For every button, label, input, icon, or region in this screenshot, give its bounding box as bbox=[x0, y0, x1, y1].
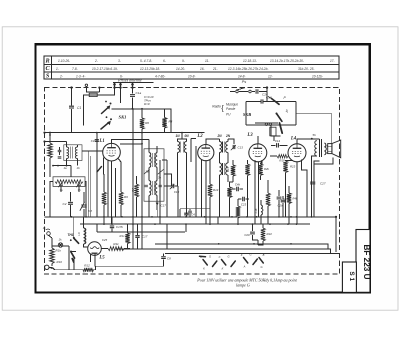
switch Ps lever bbox=[236, 88, 245, 91]
wire osc box to bus bbox=[50, 182, 86, 217]
wire ladder x164.5 bbox=[164, 109, 166, 133]
antenna terminal A1 bbox=[113, 83, 116, 86]
svg-text:BF 223 U: BF 223 U bbox=[362, 244, 371, 279]
svg-text:C10: C10 bbox=[174, 190, 180, 194]
coil 0N bbox=[184, 142, 186, 153]
svg-text:6-: 6- bbox=[163, 59, 166, 63]
svg-text:R4: R4 bbox=[169, 120, 173, 124]
pilot lamp 1k bbox=[58, 243, 62, 247]
svg-text:12-: 12- bbox=[268, 74, 273, 78]
resistor R4 bbox=[162, 118, 166, 129]
svg-text:Ps: Ps bbox=[242, 80, 247, 84]
antenna bracket line bbox=[113, 81, 154, 83]
svg-text:R10: R10 bbox=[57, 260, 63, 264]
svg-text:7-8-: 7-8- bbox=[72, 67, 78, 71]
capacitor C16 bbox=[261, 99, 263, 103]
wire riser x196 bbox=[195, 146, 197, 217]
svg-text:R9: R9 bbox=[124, 195, 128, 199]
resistor R10 bbox=[49, 235, 53, 248]
tube L2 bbox=[198, 145, 214, 161]
coil 2N secondary a bbox=[219, 163, 221, 175]
wire Ps feed bbox=[230, 91, 267, 93]
switch Ps contact b bbox=[249, 90, 252, 93]
svg-text:L4: L4 bbox=[290, 137, 297, 142]
coil 2N secondary b bbox=[226, 163, 228, 175]
svg-text:5- 4-7-8-: 5- 4-7-8- bbox=[140, 59, 152, 63]
svg-text:2-: 2- bbox=[94, 59, 98, 63]
wire L1 screen lead bbox=[120, 143, 142, 145]
wire 2N leads bbox=[219, 139, 234, 217]
capacitor C23 bbox=[243, 197, 245, 201]
wire T1 trimmer feed bbox=[164, 174, 172, 186]
IF transformer T1 box bbox=[144, 149, 164, 201]
output transformer T-out bbox=[319, 139, 321, 157]
svg-text:1N: 1N bbox=[175, 134, 180, 138]
wire L5 leads bbox=[84, 244, 96, 266]
wire selector bottom bbox=[246, 124, 296, 126]
svg-text:R7: R7 bbox=[131, 188, 135, 192]
coil 2N secondary core bbox=[223, 163, 225, 175]
svg-text:G: G bbox=[260, 265, 262, 269]
small jack box bbox=[270, 127, 276, 136]
wire L4 plate bbox=[297, 139, 319, 144]
earth terminal bbox=[85, 84, 87, 86]
coil 2N core bbox=[223, 142, 225, 153]
wire bus heater upper bbox=[155, 244, 328, 249]
IF T1 primary coils bbox=[149, 153, 151, 168]
svg-text:A: A bbox=[232, 261, 235, 265]
capacitor C12 bbox=[159, 185, 162, 186]
svg-text:R11: R11 bbox=[113, 242, 119, 246]
wire input bus bbox=[112, 109, 172, 133]
coil core lines bbox=[181, 142, 183, 153]
wire riser x96.8 bbox=[96, 133, 98, 217]
switch TH1 lever bbox=[74, 238, 79, 243]
switch SKB contacts bbox=[265, 123, 267, 125]
svg-text:21-: 21- bbox=[212, 67, 218, 71]
svg-text:9-: 9- bbox=[182, 59, 185, 63]
wire bottom-left link bbox=[49, 267, 83, 270]
title block BF 223 U box bbox=[356, 230, 370, 293]
svg-text:11-: 11- bbox=[205, 59, 209, 63]
drawing border frame bbox=[36, 44, 370, 292]
wire PU to speaker bbox=[296, 113, 331, 143]
svg-text:R22: R22 bbox=[267, 232, 273, 236]
wire L4 pins bbox=[297, 160, 307, 225]
svg-text:C23: C23 bbox=[241, 203, 247, 207]
svg-text:3-: 3- bbox=[118, 59, 121, 63]
wire T-ant to ground bus bbox=[53, 166, 71, 177]
capacitor C20 bbox=[250, 232, 255, 234]
wire T1 connections bbox=[149, 140, 157, 217]
svg-text:2N: 2N bbox=[225, 134, 231, 138]
potentiometer P lever 1 bbox=[272, 99, 280, 105]
svg-text:10-8-: 10-8- bbox=[188, 74, 195, 78]
resistor R1 bbox=[49, 133, 51, 143]
svg-text:C1: C1 bbox=[77, 106, 81, 110]
svg-text:K: K bbox=[222, 267, 224, 271]
wire jack lead bbox=[255, 123, 278, 141]
svg-text:31b-20- 25-: 31b-20- 25- bbox=[298, 67, 314, 71]
wire T-out down pair bbox=[312, 156, 320, 217]
svg-text:2N: 2N bbox=[216, 134, 222, 138]
svg-text:A: A bbox=[243, 265, 246, 269]
wire T-ant risers bbox=[88, 151, 90, 217]
wire osc coil taps bbox=[61, 186, 79, 192]
svg-text:1-3- 4-: 1-3- 4- bbox=[76, 74, 85, 78]
svg-text:0N: 0N bbox=[184, 134, 189, 138]
wire bus heater bbox=[116, 249, 331, 254]
link box bbox=[89, 93, 97, 96]
svg-text:C: C bbox=[255, 259, 257, 263]
svg-text:C17: C17 bbox=[161, 204, 167, 208]
switch SK1 contacts bbox=[110, 103, 112, 105]
svg-text:C2b: C2b bbox=[278, 204, 283, 208]
IF T1 trimmer arrows bbox=[144, 170, 149, 175]
svg-text:L5: L5 bbox=[98, 256, 105, 261]
resistor R22 bbox=[261, 228, 265, 241]
capacitor C21 bbox=[281, 200, 286, 202]
svg-text:12-3-14b-25b-26-27b-24-2b-: 12-3-14b-25b-26-27b-24-2b- bbox=[228, 67, 268, 71]
svg-text:B: B bbox=[263, 253, 265, 257]
svg-text:L6: L6 bbox=[77, 232, 81, 236]
resistor R1b bbox=[236, 206, 240, 218]
svg-text:C1a: C1a bbox=[136, 91, 142, 95]
wire antenna 2 down bbox=[120, 82, 122, 103]
capacitor C4c bbox=[188, 211, 192, 213]
svg-text:S: S bbox=[46, 73, 50, 80]
wire riser x167 bbox=[162, 160, 167, 217]
capacitor C8b riser bbox=[163, 254, 165, 267]
svg-text:14-8-: 14-8- bbox=[238, 74, 245, 78]
switch TH2 contacts bbox=[70, 251, 72, 253]
tube L5 bbox=[88, 242, 102, 256]
wire local bus 208.8 bbox=[180, 209, 210, 217]
svg-text:C: C bbox=[200, 255, 202, 259]
title block S1 box bbox=[342, 262, 356, 292]
antenna terminal A3 bbox=[131, 83, 134, 86]
svg-text:Radio: Radio bbox=[212, 105, 221, 109]
svg-text:4-7-8b-: 4-7-8b- bbox=[155, 74, 165, 78]
capacitor C2 bbox=[70, 192, 72, 217]
svg-text:R2b: R2b bbox=[264, 167, 269, 171]
capacitor C27 bbox=[310, 182, 315, 184]
wire L2 pins bbox=[202, 160, 211, 225]
svg-text:1a: 1a bbox=[63, 166, 67, 170]
svg-text:C: C bbox=[219, 255, 221, 259]
socket diagram 1 bbox=[200, 255, 206, 258]
resistor R14 bbox=[209, 180, 211, 184]
wire L1 plate bbox=[112, 140, 150, 144]
svg-text:C8: C8 bbox=[88, 209, 92, 213]
svg-text:1-10-26-: 1-10-26- bbox=[58, 59, 70, 63]
wire L2 plate bbox=[191, 138, 219, 162]
svg-text:TH1: TH1 bbox=[67, 233, 73, 237]
wire osc coils leads bbox=[178, 133, 187, 214]
filament choke L6 bbox=[84, 228, 86, 244]
svg-text:R1b: R1b bbox=[56, 249, 62, 253]
switch SKB lever 3 bbox=[280, 123, 283, 133]
svg-text:L3: L3 bbox=[246, 133, 253, 138]
mains terminal upper bbox=[47, 232, 51, 236]
wire bus bottom bbox=[55, 266, 96, 270]
tube L3 bbox=[249, 144, 267, 162]
wire speaker return bbox=[314, 158, 333, 164]
antenna transformer T-ant box bbox=[64, 145, 82, 161]
wire bus earth bbox=[45, 216, 337, 218]
capacitor C5 bbox=[58, 150, 62, 151]
tuning arrow antenna bbox=[97, 167, 102, 172]
wire bus heater lower bbox=[165, 253, 340, 255]
svg-text:17-: 17- bbox=[330, 59, 335, 63]
resistor R11 bbox=[108, 247, 124, 251]
resistor R19 bbox=[277, 154, 288, 158]
coil 2Na bbox=[219, 142, 221, 153]
electrolytic C17 bbox=[156, 203, 159, 206]
svg-text:12-13-29b-18-: 12-13-29b-18- bbox=[140, 67, 160, 71]
wire L1 grid return bbox=[111, 203, 113, 224]
svg-text:Prises antenne: Prises antenne bbox=[117, 77, 142, 82]
capacitor C24 bbox=[256, 89, 258, 94]
wire antenna 3 down bbox=[132, 82, 134, 108]
wire L3 plate bbox=[257, 136, 259, 144]
svg-text:C13: C13 bbox=[238, 146, 244, 150]
svg-text:PU: PU bbox=[226, 113, 231, 117]
antenna transformer T-ant bbox=[67, 142, 78, 166]
switch Ps contact a bbox=[236, 90, 239, 93]
resistor R5 bbox=[103, 174, 105, 192]
resistor R mid bbox=[266, 193, 270, 206]
svg-text:C17b: C17b bbox=[116, 225, 123, 229]
parts table box bbox=[44, 56, 339, 79]
svg-text:G: G bbox=[209, 255, 211, 259]
switch TH2 lever bbox=[71, 252, 75, 258]
svg-text:L1b: L1b bbox=[254, 208, 258, 213]
junction dots HT bus bbox=[103, 223, 105, 225]
resistor R2b bbox=[258, 164, 262, 175]
wire feeder A bbox=[132, 109, 134, 249]
svg-text:K: K bbox=[203, 267, 205, 271]
svg-text:C25: C25 bbox=[102, 238, 108, 242]
svg-text:Parole: Parole bbox=[226, 107, 235, 111]
svg-text:G: G bbox=[227, 255, 229, 259]
capacitor C14 bbox=[277, 143, 279, 147]
antenna terminal A2 bbox=[119, 83, 122, 86]
svg-text:G: G bbox=[249, 253, 251, 257]
svg-text:R4b: R4b bbox=[293, 197, 298, 201]
svg-text:10-12b-: 10-12b- bbox=[312, 74, 323, 78]
resistor R15 bbox=[231, 165, 235, 176]
resistor R9 bbox=[118, 158, 121, 192]
capacitor C10 bbox=[164, 186, 178, 217]
svg-text:R6: R6 bbox=[145, 121, 149, 125]
svg-text:14-20-: 14-20- bbox=[176, 67, 185, 71]
svg-text:12-18-13-: 12-18-13- bbox=[243, 59, 257, 63]
node on chassis border bbox=[266, 86, 268, 88]
coil 1N bbox=[178, 142, 180, 153]
switch TH1 contacts bbox=[73, 237, 75, 239]
svg-text:C3: C3 bbox=[91, 139, 95, 143]
IF T1 secondary coils bbox=[149, 181, 151, 196]
wire speaker leads bbox=[326, 146, 327, 153]
svg-text:lampe G: lampe G bbox=[236, 283, 250, 288]
capacitor C11 bbox=[145, 185, 148, 186]
svg-text:C17: C17 bbox=[142, 235, 148, 239]
svg-text:16-: 16- bbox=[200, 67, 205, 71]
svg-text:C20: C20 bbox=[244, 233, 250, 237]
mains terminal lower bbox=[45, 265, 49, 269]
resistor R6 bbox=[140, 118, 144, 129]
parts table row lines bbox=[44, 56, 339, 79]
capacitor C1 bbox=[69, 106, 74, 108]
wire feeder B bbox=[141, 109, 143, 249]
tuning capacitor C8 bbox=[83, 192, 85, 217]
wire bus mid bbox=[97, 231, 185, 233]
capacitor C17c bbox=[135, 236, 139, 238]
wire TH2 link bbox=[71, 252, 76, 270]
svg-text:R: R bbox=[45, 57, 50, 64]
resistor R4b bbox=[287, 193, 291, 204]
wire grid feed bbox=[45, 133, 205, 142]
socket diagram 3 bbox=[244, 258, 248, 264]
svg-text:R12: R12 bbox=[84, 263, 90, 267]
svg-text:C14: C14 bbox=[275, 139, 281, 143]
svg-text:C4b: C4b bbox=[235, 183, 241, 187]
resistor R7 bbox=[134, 184, 138, 197]
junction dots earth bus bbox=[71, 216, 73, 218]
svg-text:R19: R19 bbox=[279, 159, 285, 163]
choke L1b bbox=[261, 205, 263, 215]
tube L4 bbox=[288, 144, 306, 162]
resistor R23 bbox=[283, 161, 287, 173]
switch SKB lever 2 bbox=[277, 114, 282, 122]
svg-text:R15: R15 bbox=[226, 166, 230, 172]
capacitor C40 bbox=[237, 187, 239, 191]
svg-text:L2: L2 bbox=[196, 134, 203, 139]
resistor R17 bbox=[125, 233, 129, 244]
svg-text:1-: 1- bbox=[56, 67, 59, 71]
wire L3 pins bbox=[255, 160, 262, 224]
wire return 266 bbox=[96, 265, 164, 267]
capacitor C4 bbox=[184, 213, 189, 215]
resistor R2a bbox=[227, 187, 231, 198]
capacitor C17b bbox=[110, 226, 114, 228]
wire dropper set bbox=[97, 160, 218, 232]
chassis dashed boundary bbox=[45, 88, 340, 275]
trimmer 7b bbox=[77, 184, 81, 186]
svg-text:13-14-2b-17b-25-2b-30-: 13-14-2b-17b-25-2b-30- bbox=[270, 59, 304, 63]
wire L1 grid lead bbox=[82, 150, 103, 152]
svg-text:C8: C8 bbox=[167, 256, 171, 260]
wire antenna 1 down bbox=[84, 82, 115, 125]
capacitor C6 bbox=[58, 157, 62, 158]
svg-text:R14: R14 bbox=[213, 188, 219, 192]
resistor R16 bbox=[245, 164, 249, 176]
tube L1 bbox=[103, 143, 121, 161]
capacitor C4a bbox=[115, 168, 117, 217]
svg-text:SKB: SKB bbox=[243, 112, 251, 117]
wire TH1 riser bbox=[73, 217, 75, 238]
capacitor C1a bbox=[130, 95, 135, 97]
svg-text:A: A bbox=[213, 261, 216, 265]
svg-text:D=9: D=9 bbox=[144, 102, 150, 106]
svg-text:SK1: SK1 bbox=[119, 115, 127, 120]
wire lamp row bbox=[52, 246, 69, 270]
svg-text:S 1: S 1 bbox=[348, 271, 355, 281]
wire ground lead left bbox=[71, 88, 73, 133]
coil 2Nb bbox=[226, 142, 228, 153]
wire earth link bbox=[86, 87, 99, 93]
socket diagram 2 bbox=[222, 260, 226, 266]
wire L1 pins bbox=[104, 158, 112, 204]
wire heater riser x167 bbox=[166, 224, 168, 249]
speaker HP bbox=[328, 144, 332, 154]
wire L1 cathode to bus bbox=[107, 190, 109, 217]
svg-text:R23: R23 bbox=[290, 165, 296, 169]
wire SKB link bbox=[271, 126, 280, 136]
svg-text:C4: C4 bbox=[191, 213, 195, 217]
svg-text:1j: 1j bbox=[286, 109, 289, 113]
trimmer C13 bbox=[233, 145, 235, 149]
svg-text:10-2-17-19b-6-19-: 10-2-17-19b-6-19- bbox=[92, 67, 118, 71]
capacitor C15 bbox=[277, 197, 282, 199]
resistor R12 bbox=[83, 268, 94, 272]
capacitor C3 bbox=[95, 140, 99, 142]
svg-text:5b: 5b bbox=[313, 133, 317, 137]
svg-text:L1: L1 bbox=[98, 139, 104, 144]
svg-text:C2: C2 bbox=[63, 202, 67, 206]
wire bus HT bbox=[80, 223, 310, 225]
svg-text:R1c: R1c bbox=[120, 234, 126, 238]
wire right return bbox=[335, 217, 337, 252]
svg-text:Musique: Musique bbox=[226, 103, 238, 107]
svg-text:C27: C27 bbox=[320, 182, 326, 186]
svg-text:2-: 2- bbox=[59, 74, 63, 78]
svg-text:1b: 1b bbox=[76, 166, 80, 170]
trimmer 7a bbox=[59, 184, 63, 186]
oscillator coil box L-osc bbox=[53, 177, 85, 187]
